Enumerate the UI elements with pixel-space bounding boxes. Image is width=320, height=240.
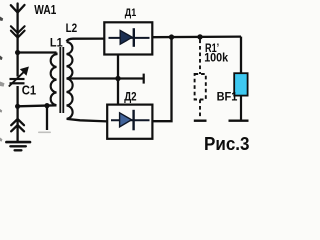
node E: D2 output joins top rail <box>169 34 174 39</box>
node B: C1 bottom / ground junction <box>15 104 20 109</box>
diode D2 <box>111 110 150 131</box>
wire L2 centre tap <box>67 77 144 79</box>
terminal bar on tap wire <box>143 74 145 84</box>
earphone BF1 <box>234 73 247 95</box>
wire D2 output right and up to node E <box>152 37 171 121</box>
svg-text:Д1: Д1 <box>125 7 136 19</box>
svg-text:100k: 100k <box>204 50 228 64</box>
wire L2 bottom to diode D2 <box>67 119 107 122</box>
terminal bar BF1 bottom <box>229 119 249 121</box>
wire L2 top to diode D1 <box>67 39 104 42</box>
svg-text:WA1: WA1 <box>34 3 56 17</box>
node F: R1 joins top rail <box>197 34 202 39</box>
inductor L2 <box>67 42 73 119</box>
diode D1 box <box>104 22 152 54</box>
wire top rail corner down to BF1 <box>240 37 242 73</box>
wire D1 output top rail <box>152 35 241 38</box>
wire BF1 bottom <box>240 96 242 120</box>
wire tap node down to D2 box <box>117 79 119 105</box>
wire D1 bottom to tap node <box>117 54 119 78</box>
wire C1 bottom <box>16 86 18 106</box>
svg-text:Д2: Д2 <box>124 89 137 103</box>
antenna WA1 <box>11 4 25 53</box>
ground <box>6 106 30 150</box>
svg-text:BF1: BF1 <box>217 90 238 104</box>
diode D1 <box>109 28 150 47</box>
node D: centre-tap junction <box>115 76 120 81</box>
node C: stub junction on bottom rail <box>44 103 49 108</box>
resistor R1 (dashed, optional) <box>195 40 206 120</box>
inductor L1 <box>51 53 57 106</box>
node A: antenna / L1 / C1 junction <box>15 50 20 55</box>
diode D2 box <box>107 105 152 139</box>
wire node A to L1 top <box>18 51 57 53</box>
svg-text:Рис.3: Рис.3 <box>204 133 250 154</box>
terminal bar R1 bottom <box>194 119 207 121</box>
svg-text:L2: L2 <box>66 21 78 35</box>
wire stub down from node C <box>46 106 48 130</box>
svg-text:C1: C1 <box>22 83 36 97</box>
wire node A down to C1 <box>16 53 18 77</box>
wire bottom rail: node B to L1 bottom <box>18 105 57 106</box>
capacitor C1 (variable) <box>9 67 28 86</box>
transformer core <box>60 47 63 113</box>
